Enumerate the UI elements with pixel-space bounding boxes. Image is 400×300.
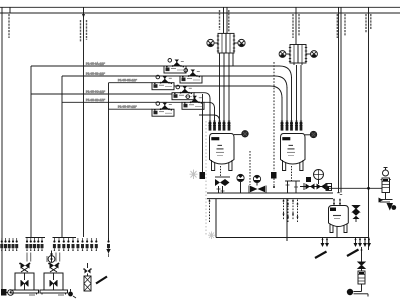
- node terminations b2: [281, 121, 283, 130]
- filter F-1 right: [379, 168, 397, 211]
- solenoid valve SV-A: [164, 59, 186, 74]
- dashed stub below header left: [209, 200, 211, 223]
- wire bus y82.7 from x108.5: [109, 82, 153, 84]
- actuator circle right XB2: [311, 51, 318, 58]
- pilot valve rack PV-1 body: [218, 33, 226, 53]
- wire bus y94 branch from x31: [31, 93, 172, 95]
- wire feeder pair V-station1: [223, 7, 225, 33]
- wire F-out y115: [199, 115, 220, 121]
- terminal strip TB-2: [26, 238, 46, 252]
- solenoid valve SV-E: [182, 95, 204, 110]
- wire stubs to circles: [214, 42, 218, 44]
- wire vertical pair x338: [338, 7, 340, 192]
- asterisk mark grey: [190, 170, 198, 180]
- terminal strip TB-1: [0, 238, 18, 251]
- wire drop b1-4: [223, 53, 225, 121]
- label wire y102.3: [86, 98, 105, 102]
- solenoid valve SV-B: [180, 69, 202, 84]
- wire A-out y66: [186, 66, 292, 78]
- ejector pump EJ-1 (stacked hourglass): [353, 206, 360, 223]
- valve row right of TK-2: [306, 177, 311, 182]
- wire bus y66 from x31: [31, 65, 165, 67]
- block valve HV-2 bowtie: [249, 186, 266, 193]
- instrument CM circle: [47, 251, 55, 263]
- drain valve pair DV-1: [321, 238, 330, 248]
- wire vertical bus x84: [83, 7, 85, 237]
- label wire y76: [86, 72, 105, 76]
- svg-text:P1-05-0A-1/2": P1-05-0A-1/2": [86, 62, 105, 66]
- wire left border vertical: [1, 7, 3, 290]
- tank1 drain dashes: [220, 166, 222, 177]
- wire below rack: [232, 53, 234, 66]
- solenoid valve SV-F: [152, 102, 174, 117]
- svg-text:P1-05-0C-1/2": P1-05-0C-1/2": [86, 90, 105, 94]
- wire E-out y102.3: [204, 102, 215, 108]
- pump P-1A assembly: [11, 253, 39, 296]
- tick marks on rack: [217, 36, 235, 51]
- svg-text:P1-05-0E-1/2": P1-05-0E-1/2": [118, 78, 137, 82]
- wire drop b2-1: [281, 97, 283, 121]
- wire C-out y86: [174, 86, 282, 98]
- mid bottom drain dot: [68, 289, 76, 298]
- wire drop b2-2: [286, 87, 288, 121]
- wire bus y76 from x62: [62, 75, 180, 77]
- corner ground square: [1, 289, 7, 296]
- actuator circle left XB1: [279, 51, 286, 58]
- valve body end of row: [326, 184, 332, 191]
- wire vertical x62 to terminals: [61, 76, 63, 237]
- wire B-out y76: [202, 76, 287, 88]
- pump P-1B assembly: [40, 253, 68, 296]
- pilot valve rack PV-2 body: [290, 45, 298, 64]
- label wire y66: [86, 62, 105, 66]
- wire drop SQ2 (dashed): [273, 62, 275, 171]
- terminal strip TB-3: [53, 238, 77, 252]
- asterisk mark grey 2: [208, 232, 215, 240]
- label wire y94: [86, 90, 105, 94]
- actuator circle left XA1: [207, 39, 214, 46]
- wire vertical x108.5 to terminal: [108, 83, 110, 241]
- faint dashed drop x206: [205, 121, 207, 235]
- wire bus y109.2 branch from x108.5: [109, 108, 153, 110]
- vessel TK-1: [210, 134, 235, 171]
- dashed bundle below header right: [284, 200, 298, 223]
- instrument circle XV1: [234, 131, 248, 137]
- pump circle P-2 mid: [253, 175, 260, 182]
- solenoid valve SV-D: [172, 85, 194, 100]
- relief valve assembly right of pumps: [83, 263, 92, 291]
- vessel TK-3: [329, 206, 349, 238]
- tank2 drain tee: [285, 166, 300, 193]
- junction dot x368 on pipe: [367, 187, 370, 190]
- slope mark 3: [347, 250, 359, 257]
- wire D-out y92.7: [194, 93, 210, 99]
- wire feeder V-station2: [295, 7, 297, 44]
- slope mark 1: [96, 277, 107, 284]
- solenoid valve SV-C: [152, 75, 174, 90]
- vessel TK-2: [281, 134, 306, 171]
- terminal single TB-5: [107, 238, 110, 251]
- node arrow on x84: [82, 14, 85, 18]
- corner instrument circle: [7, 290, 14, 296]
- wire top border line 1: [0, 6, 400, 8]
- wire bus y102.3 branch from x62: [62, 101, 182, 103]
- terminal strip TB-4: [76, 238, 97, 251]
- black cap SQ1: [200, 172, 206, 179]
- trap assembly vertical: [347, 247, 368, 297]
- instrument circle PI (cross): [314, 170, 324, 180]
- node stub N1 with label: [9, 7, 11, 13]
- wire drop b2-3: [291, 77, 293, 121]
- drain valve stub DV-3: [363, 238, 371, 248]
- slope mark 2: [315, 252, 327, 259]
- wire branch x250 to valve HV2 (dashed): [249, 151, 251, 185]
- label wire y82.7: [118, 78, 137, 82]
- svg-text:P1-05-0F-1/2": P1-05-0F-1/2": [118, 105, 137, 109]
- wire stubs vs2: [286, 53, 290, 55]
- wire drop b1-3: [219, 53, 221, 121]
- actuator circle right XA2: [238, 39, 245, 46]
- wire drop b1-2: [214, 108, 216, 122]
- pump circle P-1: [237, 174, 244, 181]
- arrow below TB-5: [106, 249, 110, 254]
- wire vertical x31 to terminals: [30, 66, 32, 237]
- wire drop b1-1: [209, 98, 211, 121]
- wire vertical x368: [368, 7, 370, 250]
- wire drop b2-4: [296, 65, 298, 121]
- pipe drain line y237: [287, 237, 369, 239]
- wire drop b2-5: [300, 65, 302, 121]
- dashed stubs above TK-3: [334, 199, 340, 206]
- pipe header double line: [207, 192, 333, 194]
- pipe line y188 to filter: [300, 186, 332, 188]
- node terminations b1: [209, 121, 211, 130]
- svg-text:P1-05-0B-1/2": P1-05-0B-1/2": [86, 72, 105, 76]
- black cap SQ2: [271, 172, 277, 179]
- svg-text:P1-05-0D-1/2": P1-05-0D-1/2": [86, 98, 105, 102]
- label wire y109.2: [118, 105, 137, 109]
- drain valve pair DV-2: [354, 238, 363, 248]
- wire drop b1-5: [228, 53, 230, 121]
- instrument circle XV2: [305, 131, 317, 137]
- skid boundary rectangle: [215, 199, 217, 238]
- wire top border line 2: [0, 12, 400, 14]
- valve manifold under TK-1: [215, 177, 230, 193]
- wire drop SQ1: [202, 94, 204, 172]
